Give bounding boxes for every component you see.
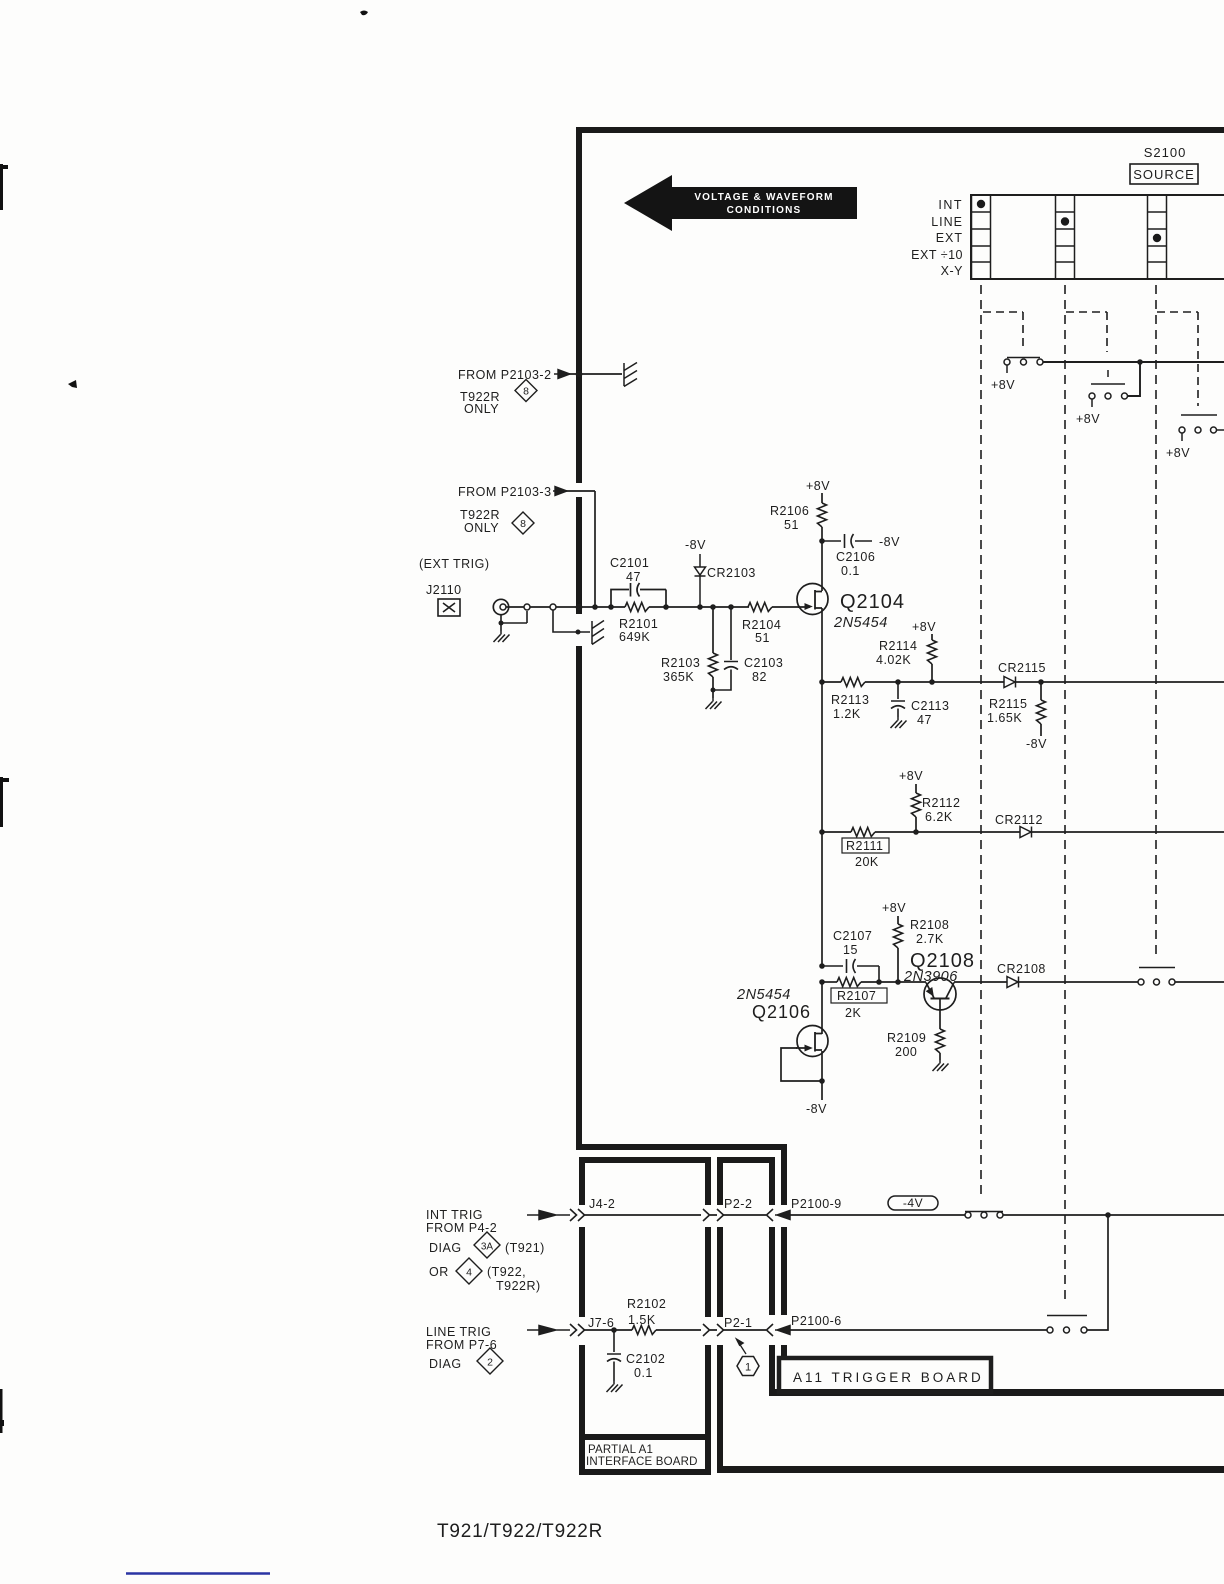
diode CR2112 bbox=[1020, 827, 1032, 838]
P2 connector channel bars bbox=[717, 1157, 1224, 1473]
svg-text:20K: 20K bbox=[855, 855, 879, 869]
wire Q2108 collector to CR2108 bbox=[954, 981, 1007, 983]
Q2106 drain wire bbox=[821, 982, 823, 1034]
wire CR2112 to right edge bbox=[1032, 831, 1224, 833]
svg-text:+8V: +8V bbox=[882, 901, 906, 915]
LINE TRIG chevrons into J7-6 bbox=[570, 1324, 585, 1336]
svg-text:+8V: +8V bbox=[991, 378, 1015, 392]
resistor R2107 2K (selected value box) bbox=[822, 981, 837, 983]
arrow into frame P2103-2 bbox=[554, 370, 570, 379]
svg-text:R2102: R2102 bbox=[627, 1297, 666, 1311]
svg-text:47: 47 bbox=[917, 713, 932, 727]
branch wire down to contact set 6 bbox=[1087, 1215, 1108, 1330]
svg-text:VOLTAGE & WAVEFORM: VOLTAGE & WAVEFORM bbox=[694, 192, 833, 203]
svg-text:1.65K: 1.65K bbox=[987, 711, 1022, 725]
wire contact set 4 to right edge bbox=[1175, 981, 1224, 983]
svg-text:365K: 365K bbox=[663, 670, 694, 684]
node on ground spur bbox=[576, 630, 581, 635]
svg-text:0.1: 0.1 bbox=[634, 1366, 653, 1380]
node P2103-3 joins input bbox=[592, 604, 598, 610]
svg-text:1.2K: 1.2K bbox=[833, 707, 861, 721]
partial A1 interface board outline bbox=[579, 1157, 711, 1475]
svg-text:2K: 2K bbox=[845, 1006, 861, 1020]
svg-text:2.7K: 2.7K bbox=[916, 932, 944, 946]
diode CR2115 bbox=[1004, 677, 1016, 688]
J7-6 / P2-1 mating chevrons bbox=[703, 1324, 724, 1336]
svg-text:X-Y: X-Y bbox=[941, 264, 964, 278]
svg-text:1: 1 bbox=[745, 1362, 751, 1374]
node where input crosses frame bbox=[576, 604, 583, 611]
arrow P2103-3 bbox=[553, 487, 567, 496]
LINE TRIG arrow bbox=[527, 1326, 570, 1335]
resistor R2101 649K bbox=[625, 603, 649, 612]
P2100-6 receiving chevron arrow bbox=[767, 1324, 774, 1336]
voltage & waveform conditions banner bbox=[624, 175, 857, 231]
node R2108 bbox=[895, 979, 901, 985]
node C2113 bbox=[895, 679, 901, 685]
svg-text:82: 82 bbox=[752, 670, 767, 684]
svg-text:EXT: EXT bbox=[936, 231, 963, 245]
resistor R2109 200 bbox=[936, 1029, 945, 1053]
svg-text:C2101: C2101 bbox=[610, 556, 649, 570]
switch column strip EXT bbox=[1148, 195, 1167, 279]
node Q2104 drain / C2106 bbox=[819, 538, 825, 544]
J2110 BNC connector bbox=[493, 599, 508, 614]
svg-text:2N5454: 2N5454 bbox=[833, 615, 888, 631]
svg-text:47: 47 bbox=[626, 570, 641, 584]
svg-text:+8V: +8V bbox=[806, 479, 830, 493]
diamond 8 (T922R note 2) bbox=[512, 512, 534, 534]
svg-text:LINE: LINE bbox=[931, 215, 963, 229]
svg-text:51: 51 bbox=[784, 518, 799, 532]
input wire with connector pins bbox=[507, 606, 612, 608]
svg-text:+8V: +8V bbox=[912, 620, 936, 634]
J4-2 wire bbox=[584, 1214, 701, 1216]
svg-text:J7-6: J7-6 bbox=[588, 1316, 614, 1330]
switch column strip LINE bbox=[1056, 195, 1075, 279]
svg-text:R2106: R2106 bbox=[770, 504, 809, 518]
node -4V branch bbox=[1105, 1212, 1111, 1218]
diode CR2103 bbox=[695, 554, 706, 607]
resistor R2111 20K (selected value box) bbox=[822, 831, 851, 833]
node R2114 bbox=[929, 679, 935, 685]
P2100-6 wire bbox=[788, 1329, 1047, 1331]
svg-text:-8V: -8V bbox=[1026, 737, 1047, 751]
switch contact set 5 (-4V line) bbox=[965, 1212, 1003, 1219]
switch position dot EXT bbox=[1153, 234, 1161, 242]
svg-text:C2107: C2107 bbox=[833, 929, 872, 943]
svg-text:+8V: +8V bbox=[1166, 446, 1190, 460]
svg-text:CR2115: CR2115 bbox=[998, 661, 1046, 675]
P2100-9 receiving chevron arrow bbox=[767, 1209, 774, 1221]
BNC shell ground wire bbox=[501, 611, 527, 631]
svg-text:Q2106: Q2106 bbox=[752, 1002, 811, 1022]
capacitor C2103 82 bbox=[713, 607, 738, 690]
svg-text:-4V: -4V bbox=[903, 1196, 923, 1210]
switch S2100 body bbox=[971, 195, 1224, 279]
dashed switch wafer line 2 bbox=[1064, 285, 1066, 1304]
svg-text:R2115: R2115 bbox=[989, 697, 1027, 711]
node CR2103 bbox=[697, 604, 703, 610]
svg-text:R2114: R2114 bbox=[879, 639, 917, 653]
node gate tie bbox=[819, 1078, 825, 1084]
svg-text:CR2112: CR2112 bbox=[995, 813, 1043, 827]
svg-text:FROM P7-6: FROM P7-6 bbox=[426, 1338, 497, 1352]
capacitor C2107 15 bbox=[822, 959, 879, 982]
switch contact set 6 (P2100-6 line) bbox=[1047, 1316, 1087, 1334]
diode CR2108 bbox=[1007, 977, 1019, 988]
svg-text:ONLY: ONLY bbox=[464, 402, 499, 416]
J4-2 / P2-2 mating chevrons bbox=[703, 1209, 724, 1221]
wire P2103-2 to chassis bbox=[568, 373, 622, 375]
resistor R2106 51 bbox=[821, 493, 823, 503]
diamond 8 (T922R note 1) bbox=[515, 380, 537, 402]
svg-text:CR2103: CR2103 bbox=[707, 566, 756, 580]
svg-text:R2113: R2113 bbox=[831, 693, 869, 707]
node C2107 bbox=[819, 963, 825, 969]
P2100-9 wire bbox=[788, 1214, 965, 1216]
svg-text:J4-2: J4-2 bbox=[589, 1197, 615, 1211]
connector pin circle b bbox=[550, 604, 556, 610]
schematic frame left border bbox=[576, 127, 582, 483]
svg-text:T922R: T922R bbox=[460, 508, 500, 522]
resistor R2104 51 bbox=[748, 603, 772, 612]
node C2102 bbox=[611, 1327, 617, 1333]
wire contact set 5 to junction bbox=[1003, 1214, 1224, 1216]
resistor R2114 4.02K bbox=[931, 634, 933, 640]
svg-text:8: 8 bbox=[520, 518, 526, 530]
switch contact set 2 (LINE row) bbox=[1089, 370, 1128, 407]
svg-text:C2103: C2103 bbox=[744, 656, 783, 670]
switch column strip INT bbox=[972, 195, 991, 279]
node R2115 bbox=[1038, 679, 1044, 685]
resistor R2103 365K bbox=[712, 607, 714, 653]
svg-text:T921/T922/T922R: T921/T922/T922R bbox=[437, 1521, 603, 1542]
node R2103 top bbox=[710, 604, 716, 610]
svg-text:INT TRIG: INT TRIG bbox=[426, 1208, 483, 1222]
capacitor C2113 47 bbox=[891, 682, 905, 717]
svg-text:3A: 3A bbox=[481, 1242, 494, 1253]
chassis ground sideways at spur bbox=[592, 621, 604, 645]
svg-text:INTERFACE BOARD: INTERFACE BOARD bbox=[586, 1456, 698, 1468]
svg-text:2N3906: 2N3906 bbox=[903, 969, 958, 985]
svg-text:8: 8 bbox=[523, 386, 529, 398]
switch position dot LINE bbox=[1061, 217, 1069, 225]
Q2106 gate tie loop bbox=[781, 1048, 822, 1081]
svg-text:P2-2: P2-2 bbox=[724, 1197, 752, 1211]
svg-text:LINE TRIG: LINE TRIG bbox=[426, 1325, 491, 1339]
svg-text:+8V: +8V bbox=[899, 769, 923, 783]
dashed actuator bracket 2 bbox=[1066, 312, 1107, 352]
svg-text:R2101: R2101 bbox=[619, 617, 658, 631]
svg-text:PARTIAL A1: PARTIAL A1 bbox=[588, 1444, 653, 1456]
svg-text:15: 15 bbox=[843, 943, 858, 957]
switch contact set 1 (INT row) bbox=[1004, 358, 1043, 374]
svg-text:-8V: -8V bbox=[879, 535, 900, 549]
svg-text:EXT ÷10: EXT ÷10 bbox=[911, 248, 963, 262]
A11 TRIGGER BOARD label box bbox=[779, 1358, 991, 1392]
svg-text:CONDITIONS: CONDITIONS bbox=[727, 205, 802, 216]
node source / R2113 bbox=[819, 679, 825, 685]
dashed switch wafer line 1 bbox=[980, 285, 982, 1197]
svg-text:R2112: R2112 bbox=[922, 796, 960, 810]
resistor R2115 1.65K bbox=[1040, 682, 1042, 700]
FET Q2106 bbox=[796, 1026, 828, 1057]
capacitor C2106 0.1 bbox=[822, 534, 872, 548]
dashed actuator bracket 1 bbox=[983, 312, 1023, 348]
svg-text:(EXT TRIG): (EXT TRIG) bbox=[419, 557, 490, 571]
node C2101 left bbox=[608, 604, 614, 610]
INT TRIG arrow bbox=[527, 1211, 570, 1220]
node C2101 right bbox=[663, 604, 669, 610]
svg-text:200: 200 bbox=[895, 1045, 917, 1059]
svg-text:C2113: C2113 bbox=[911, 699, 949, 713]
node R2107 left bbox=[819, 979, 825, 985]
-4V test voltage bubble bbox=[888, 1196, 938, 1210]
svg-text:+8V: +8V bbox=[1076, 412, 1100, 426]
resistor R2102 1.5K bbox=[632, 1326, 656, 1335]
svg-text:1.5K: 1.5K bbox=[628, 1313, 656, 1327]
wire from junction down to contact set 2 bbox=[1128, 362, 1140, 396]
wire CR2115 to right edge bbox=[1016, 681, 1224, 683]
boxed X assembly marker bbox=[438, 599, 460, 616]
node C2107 right bbox=[876, 979, 882, 985]
frame corner to A11 board bbox=[576, 1144, 787, 1150]
J7-6 wire bbox=[584, 1329, 632, 1331]
wire P2103-3 down to input node bbox=[566, 491, 595, 607]
svg-text:51: 51 bbox=[755, 631, 770, 645]
svg-text:T922R): T922R) bbox=[496, 1279, 541, 1293]
svg-text:C2106: C2106 bbox=[836, 550, 875, 564]
resistor R2112 6.2K bbox=[915, 784, 917, 793]
node below BNC bbox=[499, 621, 504, 626]
svg-text:SOURCE: SOURCE bbox=[1133, 167, 1195, 182]
svg-text:2N5454: 2N5454 bbox=[736, 987, 791, 1003]
svg-text:R2111: R2111 bbox=[846, 839, 883, 853]
svg-text:(T922,: (T922, bbox=[487, 1265, 526, 1279]
scan artifact left edge middle bbox=[0, 777, 9, 827]
svg-text:R2107: R2107 bbox=[837, 989, 876, 1003]
svg-text:P2100-6: P2100-6 bbox=[791, 1314, 842, 1328]
svg-text:(T921): (T921) bbox=[505, 1241, 545, 1255]
connector pin circle a bbox=[524, 604, 530, 610]
svg-text:2: 2 bbox=[487, 1357, 493, 1369]
scan artifact left edge top bbox=[0, 164, 8, 210]
svg-text:DIAG: DIAG bbox=[429, 1357, 462, 1371]
svg-text:0.1: 0.1 bbox=[841, 564, 860, 578]
dashed actuator bracket 3 bbox=[1157, 312, 1198, 406]
node source / R2111 bbox=[819, 829, 825, 835]
blue pen underline bbox=[126, 1572, 270, 1574]
resistor R2113 1.2K bbox=[841, 678, 865, 687]
svg-text:FROM P2103-3: FROM P2103-3 bbox=[458, 485, 552, 499]
svg-text:OR: OR bbox=[429, 1265, 449, 1279]
svg-text:-8V: -8V bbox=[806, 1102, 827, 1116]
switch contact set 3 (EXT row) bbox=[1179, 415, 1224, 441]
svg-text:A11 TRIGGER BOARD: A11 TRIGGER BOARD bbox=[793, 1370, 984, 1385]
A11 trigger board left border bbox=[769, 1150, 1224, 1396]
svg-text:-8V: -8V bbox=[685, 538, 706, 552]
svg-text:Q2104: Q2104 bbox=[840, 591, 905, 613]
wire to CR2103 node bbox=[666, 606, 749, 608]
svg-text:CR2108: CR2108 bbox=[997, 962, 1046, 976]
wire CR2108 to contact set 4 bbox=[1019, 981, 1139, 983]
svg-text:P2100-9: P2100-9 bbox=[791, 1197, 842, 1211]
chassis ground below R2103 bbox=[712, 690, 714, 698]
svg-text:P2-1: P2-1 bbox=[724, 1316, 752, 1330]
svg-text:4.02K: 4.02K bbox=[876, 653, 911, 667]
node R2112 bbox=[913, 829, 919, 835]
FET Q2104 bbox=[797, 584, 828, 615]
switch SOURCE label box bbox=[1130, 164, 1198, 184]
svg-text:ONLY: ONLY bbox=[464, 521, 499, 535]
svg-text:R2104: R2104 bbox=[742, 618, 781, 632]
chassis ground sideways P2103-2 bbox=[624, 363, 637, 387]
hexagon 1 callout with arrow bbox=[737, 1340, 746, 1354]
chassis ground at BNC bbox=[494, 631, 510, 642]
node junction on INT wire bbox=[1137, 359, 1143, 365]
svg-text:4: 4 bbox=[466, 1267, 472, 1279]
pin b ground spur wire bbox=[553, 610, 590, 632]
capacitor C2102 0.1 bbox=[607, 1330, 621, 1381]
scan speck left bbox=[68, 380, 77, 388]
svg-text:INT: INT bbox=[938, 198, 963, 212]
schematic frame top border bbox=[576, 127, 1224, 133]
svg-text:649K: 649K bbox=[619, 630, 650, 644]
svg-text:J2110: J2110 bbox=[426, 583, 462, 597]
transistor Q2108 bbox=[924, 978, 956, 1029]
svg-text:FROM P2103-2: FROM P2103-2 bbox=[458, 368, 552, 382]
dashed switch wafer line 3 bbox=[1155, 285, 1157, 958]
svg-text:S2100: S2100 bbox=[1144, 145, 1187, 160]
switch contact set 4 (EXT row lower) bbox=[1138, 968, 1175, 986]
svg-text:C2102: C2102 bbox=[626, 1352, 665, 1366]
INT TRIG chevrons into J4-2 bbox=[570, 1209, 585, 1221]
svg-text:R2103: R2103 bbox=[661, 656, 700, 670]
svg-text:R2108: R2108 bbox=[910, 918, 949, 932]
node on frame border P2103-2 bbox=[576, 371, 583, 378]
scan artifact left edge bottom bbox=[0, 1389, 4, 1433]
node C2103 top bbox=[728, 604, 734, 610]
node R2103/C2103 join bbox=[711, 688, 716, 693]
Q2104 source line down bbox=[821, 608, 823, 966]
resistor R2108 2.7K bbox=[897, 916, 899, 924]
switch position dot INT bbox=[977, 200, 985, 208]
capacitor C2101 bypass loop bbox=[611, 590, 666, 608]
switch row labels bbox=[911, 198, 963, 278]
scan speck top bbox=[360, 11, 368, 16]
wire from contact set 1 to right edge bbox=[1043, 361, 1224, 363]
Q2106 source wire bbox=[821, 1051, 823, 1100]
svg-text:6.2K: 6.2K bbox=[925, 810, 953, 824]
svg-text:DIAG: DIAG bbox=[429, 1241, 462, 1255]
svg-text:R2109: R2109 bbox=[887, 1031, 926, 1045]
